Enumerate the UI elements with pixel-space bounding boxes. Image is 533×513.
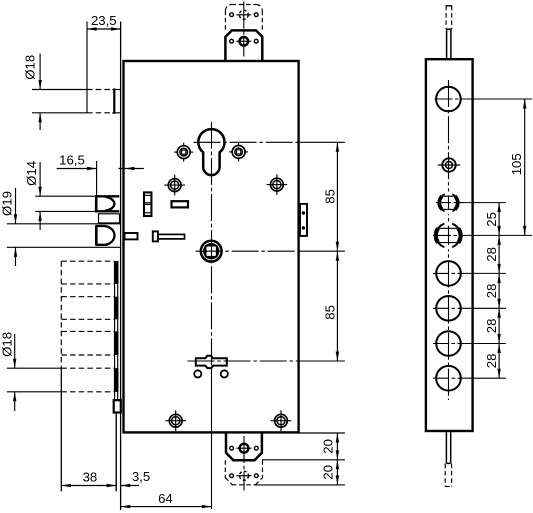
dimension 3,5 arrow xyxy=(121,485,139,487)
svg-text:Ø18: Ø18 xyxy=(22,55,37,80)
label 20 upper rotated xyxy=(321,439,336,454)
wire hub horizontal centerline / 85 extension xyxy=(196,250,301,252)
svg-text:Ø14: Ø14 xyxy=(24,161,39,186)
svg-text:105: 105 xyxy=(509,153,524,175)
guide block 1 filled xyxy=(114,261,119,284)
top tab dashed extended position xyxy=(225,5,262,31)
hidden bolt housing dashed left edge xyxy=(60,261,62,368)
guide block 2 filled xyxy=(114,297,119,320)
hidden bolt 3 lower line xyxy=(61,354,114,356)
hidden pin Ø18 lower line dashed xyxy=(61,391,114,393)
hidden bolt 2 upper line xyxy=(61,296,114,298)
hole R8 bolt circle xyxy=(436,366,461,391)
screw hole S2 target style xyxy=(229,142,248,161)
top tab hole left xyxy=(230,39,234,43)
dimension 23,5 dimension line with arrows xyxy=(87,28,121,30)
hole R3 notched cylinder nut small xyxy=(439,191,458,214)
top tab deadbolt solid position xyxy=(225,30,262,61)
dimension Ø14 arrows xyxy=(39,162,41,196)
label 105 rotated xyxy=(509,153,524,175)
svg-text:16,5: 16,5 xyxy=(59,152,85,167)
dimension Ø19 extension lines xyxy=(7,223,121,225)
lock body outline xyxy=(124,61,299,432)
label Ø18 lower rotated xyxy=(0,332,15,357)
small hole P2 xyxy=(221,370,228,377)
svg-text:28: 28 xyxy=(484,247,499,262)
wire main vertical centerline (backset axis) xyxy=(211,122,213,368)
dimension 20 extension lines xyxy=(299,432,345,434)
label Ø14 rotated xyxy=(24,161,39,186)
top tab centerline xyxy=(243,2,245,57)
top tab center hole xyxy=(240,37,249,46)
dimension Ø18 top: lines and arrows xyxy=(39,54,41,90)
label 28 second rotated xyxy=(484,284,499,299)
spacer between bolts xyxy=(99,214,120,223)
node top pin Ø18 bottom line xyxy=(32,112,87,114)
node top pin end cap at faceplate xyxy=(113,88,115,114)
bottom tab centerline xyxy=(243,436,245,491)
dimension 85 pair dimension line xyxy=(336,142,338,361)
svg-text:Ø18: Ø18 xyxy=(0,332,15,357)
faceplate guide rail double lines xyxy=(114,261,116,400)
svg-text:28: 28 xyxy=(484,284,499,299)
bottom tab hole right xyxy=(254,446,258,450)
small hole P1 xyxy=(194,370,201,377)
screw hole S3 crosshair style xyxy=(164,175,185,196)
bottom tab deadbolt solid position xyxy=(226,432,262,460)
hole R2 screw target xyxy=(438,158,460,171)
side hook bracket on right edge xyxy=(300,204,307,236)
dimension 105 dimension line xyxy=(524,99,526,235)
label 28 first rotated xyxy=(484,247,499,262)
faceplate lower strip line xyxy=(115,413,117,492)
bottom tab dashed hole left xyxy=(230,474,234,478)
svg-text:64: 64 xyxy=(158,491,173,506)
label 20 lower rotated xyxy=(321,465,336,480)
label 25 rotated xyxy=(484,212,499,227)
hub H1 follower square xyxy=(201,241,222,262)
right view top rod dashed extension xyxy=(446,6,453,29)
part vertical bar (lever spring) xyxy=(144,192,151,216)
hidden bolt housing dashed top edge xyxy=(61,260,114,262)
svg-text:23,5: 23,5 xyxy=(91,13,117,28)
guide block 4 filled xyxy=(114,368,119,392)
faceplate front edge line xyxy=(120,22,122,511)
svg-text:38: 38 xyxy=(83,469,98,484)
svg-text:3,5: 3,5 xyxy=(132,469,150,484)
svg-text:25: 25 xyxy=(484,212,499,227)
label 28 fourth rotated xyxy=(484,354,499,369)
screw hole S6 crosshair style xyxy=(165,410,186,431)
hidden bolt 2 lower line xyxy=(61,318,114,320)
bolt B2 rounded tip arc xyxy=(105,226,115,244)
bolt B2 Ø19 outline xyxy=(95,226,98,245)
hole R5 bolt circle xyxy=(436,261,461,286)
node top pin Ø18 top line xyxy=(32,89,87,91)
right view bottom rod dashed extension xyxy=(445,464,451,487)
screw hole S1 target style xyxy=(174,143,193,162)
dimension 25 and 28 chain dimension line xyxy=(498,203,500,379)
guide block 3 filled xyxy=(114,331,119,355)
hole R6 bolt circle xyxy=(436,296,461,321)
top tab dashed center hole xyxy=(239,10,248,19)
bottom tab hole left xyxy=(230,446,234,450)
wire cylinder horizontal centerline / 85 extension xyxy=(194,141,301,143)
bolt B1 Ø14 outline xyxy=(95,195,98,212)
dimension Ø18 lower arrows xyxy=(14,334,16,368)
hidden bolt housing left edge solid lower part xyxy=(60,368,62,491)
hidden bolt 3 upper line xyxy=(61,330,114,332)
screw hole S4 crosshair style xyxy=(267,174,288,195)
dimension 23,5 extension line left xyxy=(86,22,88,113)
bottom tab dashed center hole xyxy=(240,471,249,480)
dimension Ø18 lower extension lines xyxy=(7,367,62,369)
label 85 lower rotated xyxy=(323,305,338,320)
top tab hole right xyxy=(254,39,258,43)
part key lever T-shape xyxy=(153,231,185,241)
dimension 16,5 extension line (bolt face) xyxy=(96,161,98,196)
right view bottom rod solid xyxy=(446,431,450,463)
hidden pin Ø18 upper line dashed xyxy=(61,367,114,369)
hidden bolt 1 lower line xyxy=(61,283,114,285)
latch tab on faceplate right xyxy=(125,233,138,239)
label Ø18 top rotated xyxy=(22,55,37,80)
faceplate screw boss box xyxy=(114,400,121,412)
label Ø19 rotated xyxy=(0,191,15,216)
svg-text:85: 85 xyxy=(323,305,338,320)
dimension 16,5 dimension line xyxy=(57,168,97,170)
dimension Ø19 arrows xyxy=(15,188,17,224)
svg-text:85: 85 xyxy=(323,189,338,204)
label 28 third rotated xyxy=(484,319,499,334)
svg-text:20: 20 xyxy=(321,439,336,454)
bottom tab dashed extended position xyxy=(225,460,262,485)
bolt B1 rounded tip arc xyxy=(105,197,114,211)
dimension 64 dimension line xyxy=(121,506,212,508)
top tab dashed hole right xyxy=(254,13,258,17)
dimension 38 dimension line xyxy=(61,485,116,487)
right view top rod solid xyxy=(446,29,452,59)
hole R1 large top circle xyxy=(436,87,461,112)
svg-text:Ø19: Ø19 xyxy=(0,191,15,216)
hole R4 notched cylinder nut large xyxy=(436,221,461,249)
part slot rectangle xyxy=(172,201,189,207)
hole R7 bolt circle xyxy=(436,331,461,356)
label 85 upper rotated xyxy=(323,189,338,204)
bottom tab center hole xyxy=(240,444,249,453)
right view faceplate plate outline xyxy=(426,59,473,431)
right view vertical centerline xyxy=(448,80,450,400)
svg-text:20: 20 xyxy=(321,465,336,480)
wire toggle horizontal centerline / 85 extension xyxy=(188,360,301,362)
dimension Ø14 extension lines xyxy=(35,195,95,197)
svg-text:28: 28 xyxy=(484,319,499,334)
cylinder C1 euro profile keyhole xyxy=(198,129,224,175)
part toggle switch lever xyxy=(196,356,227,368)
bottom tab dashed hole right xyxy=(254,474,258,478)
top tab dashed hole left xyxy=(230,13,234,17)
svg-text:28: 28 xyxy=(484,354,499,369)
dimension 20 pair dimension line xyxy=(336,433,338,485)
screw hole S7 crosshair style xyxy=(271,410,292,431)
